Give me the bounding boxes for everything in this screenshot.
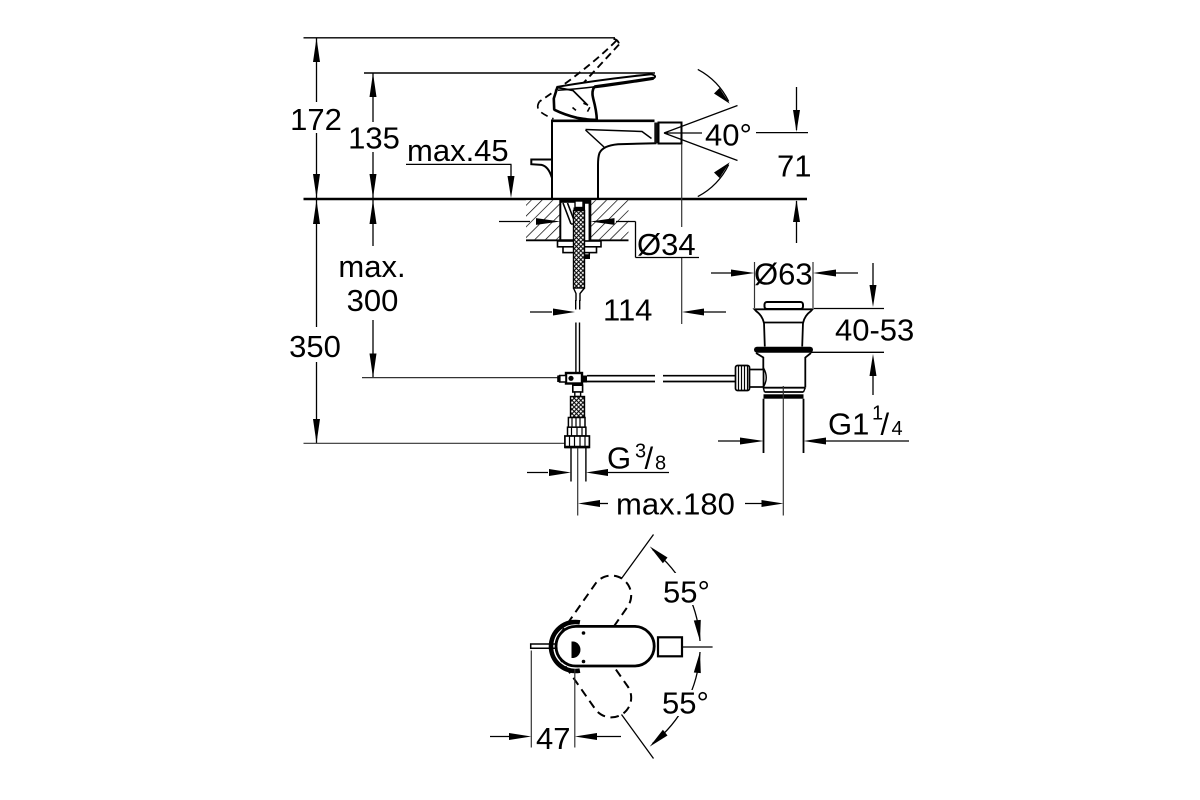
dashed raised lever top edge (540, 41, 617, 102)
G1 1/4 dimension (718, 440, 741, 442)
escutcheon ring (551, 622, 580, 671)
55 deg axis extension lower (622, 715, 654, 759)
55 deg upper arc (653, 550, 701, 642)
max.300 bottom reference line (362, 377, 566, 379)
svg-text:Ø34: Ø34 (637, 227, 696, 262)
dashed facet lower (573, 108, 579, 113)
aerator dark slot (654, 123, 658, 144)
handle crease line (558, 87, 594, 90)
dimension 47 (530, 651, 532, 748)
dashed raised handle grip (538, 102, 554, 119)
svg-text:8: 8 (655, 453, 666, 475)
hose collar (574, 208, 585, 211)
aerator axis extension line (681, 144, 683, 227)
grip left thick edge (554, 87, 558, 110)
svg-text:4: 4 (892, 418, 903, 440)
dimension 135 (372, 73, 374, 198)
neck thick edge (592, 87, 596, 120)
label 55 lower (659, 690, 711, 716)
deck top line (304, 198, 808, 200)
supply hose top fitting (575, 201, 583, 208)
counter hatch left (526, 200, 560, 239)
cartridge D mark (572, 642, 581, 659)
svg-text:40-53: 40-53 (835, 313, 914, 348)
dimension 71 (796, 87, 798, 130)
fan lower arc (698, 165, 729, 197)
valve dark ring (764, 394, 804, 398)
braided hose lower (571, 397, 585, 418)
valve extension lines (754, 262, 756, 308)
G3/8 tail pipe (571, 448, 586, 482)
svg-text:71: 71 (777, 149, 811, 184)
body outline (551, 121, 553, 199)
spout underside (598, 143, 657, 199)
rubber seal (754, 347, 813, 353)
svg-text:135: 135 (348, 121, 400, 156)
body top edge (551, 120, 655, 123)
dashed raised lever bottom edge (582, 45, 619, 85)
ball joint arc (764, 368, 767, 387)
svg-text:G1: G1 (828, 407, 869, 442)
svg-text:172: 172 (290, 102, 342, 137)
dimension max.180 (578, 500, 600, 507)
faucet body plan (pill) (556, 626, 654, 666)
G3/8 nut (565, 436, 590, 447)
mounting washer (558, 241, 602, 247)
55 deg lower arc (653, 652, 701, 744)
55 deg axis extension upper (622, 535, 654, 579)
T-junction (566, 373, 582, 384)
faucet centerline extension (577, 448, 579, 516)
svg-text:350: 350 (289, 329, 341, 364)
svg-text:300: 300 (347, 283, 399, 318)
top reference line (172) (304, 37, 616, 39)
stem connector (573, 385, 583, 392)
fan rays (664, 106, 738, 161)
tailpipe (764, 399, 804, 453)
fan upper arc (698, 69, 729, 101)
svg-text:55°: 55° (662, 686, 709, 721)
right stud foot (581, 255, 591, 259)
mounting nut (563, 247, 597, 253)
handle outline (554, 74, 655, 119)
deck bottom line (526, 239, 629, 241)
dashed facet chevron (583, 103, 590, 112)
plan left tab (531, 644, 558, 648)
dashed swung handle lower (548, 619, 639, 725)
hose lower tip (574, 288, 585, 301)
lift rod upper stub (576, 300, 580, 310)
lift rod (576, 323, 580, 373)
plug body (764, 323, 803, 347)
plan centerline (682, 646, 713, 648)
left mounting stud (563, 203, 576, 224)
svg-text:114: 114 (603, 293, 652, 328)
label 55 upper (660, 573, 712, 605)
stem collar (575, 392, 581, 397)
G3/8 collar mid (568, 427, 586, 436)
temperature lever hook (531, 160, 552, 178)
right mounting stud (584, 203, 589, 255)
aerator (659, 123, 682, 144)
dimension 40-53 (814, 308, 884, 310)
T right connector (582, 376, 587, 383)
reference line (135) (364, 72, 655, 74)
svg-text:/: / (645, 441, 654, 476)
counter hatch right (590, 200, 628, 239)
dimension 172 (316, 38, 318, 198)
dimension 114 (530, 311, 552, 313)
svg-text:55°: 55° (663, 575, 710, 610)
actuator shaft (750, 370, 764, 388)
svg-text:Ø63: Ø63 (754, 257, 813, 292)
counter hole right wall (589, 199, 591, 240)
grip bottom thick edge (554, 110, 586, 120)
spout inner top edge (586, 130, 652, 139)
svg-text:max.: max. (338, 249, 405, 284)
svg-text:max.45: max.45 (407, 133, 509, 168)
pop-up rod (horizontal) (587, 376, 655, 382)
dashed raised lever tip cap (614, 39, 620, 45)
dimension 350 (316, 200, 318, 443)
base underside bar (561, 200, 590, 203)
svg-text:47: 47 (536, 721, 570, 756)
dashed swung handle upper (548, 568, 639, 674)
plan aerator (658, 637, 682, 656)
dimension max.300 (372, 200, 374, 378)
braided hose upper (574, 211, 585, 289)
svg-text:G: G (607, 441, 631, 476)
counter hole left wall (559, 199, 561, 240)
350 bottom reference line (304, 442, 566, 444)
lever bottom thick edge (594, 78, 653, 87)
G3/8 collar upper (568, 418, 585, 428)
svg-text:max.180: max.180 (616, 487, 735, 522)
svg-text:40°: 40° (705, 118, 752, 153)
plug flange trumpet (755, 309, 813, 322)
lower trumpet (756, 353, 811, 388)
valve body bottom (763, 388, 805, 392)
G3/8 dimension arrows (527, 472, 548, 474)
label diameter 34 (499, 221, 530, 223)
handle facet diagonal (558, 88, 588, 105)
spout inner diagonal (586, 130, 605, 147)
pop-up plug cap (765, 302, 804, 309)
valve centerline (782, 386, 784, 516)
screw dots (582, 631, 586, 635)
T left cylinder (558, 376, 566, 383)
T lower stem (576, 384, 580, 391)
actuator knob (736, 366, 750, 391)
svg-text:/: / (881, 407, 890, 442)
